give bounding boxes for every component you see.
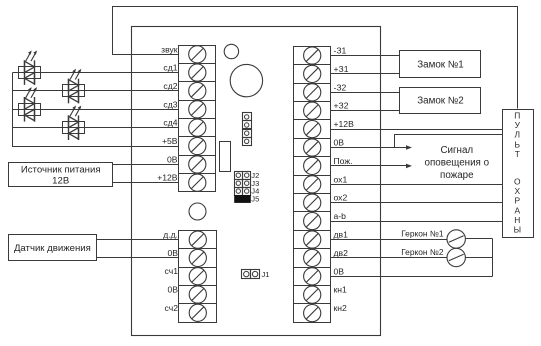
svg-text:сд4: сд4 bbox=[163, 118, 177, 128]
svg-text:0В: 0В bbox=[167, 285, 178, 295]
terminal block X1 (left upper strip) bbox=[179, 46, 216, 192]
svg-text:Х: Х bbox=[515, 186, 521, 196]
svg-text:Источник питания: Источник питания bbox=[21, 165, 101, 176]
wire ох2 to ПУЛЬТ ОХРАНЫ bbox=[331, 202, 503, 204]
svg-text:ох1: ох1 bbox=[334, 174, 348, 184]
wire 0В to motion sensor bbox=[97, 257, 179, 259]
LED HL2 (bicolor, two anti-parallel diodes with emission arrows) bbox=[63, 69, 85, 104]
terminal X3:Пож. bbox=[294, 157, 331, 176]
power supply box: Источник питания 12В bbox=[9, 163, 113, 187]
svg-text:-З2: -З2 bbox=[334, 82, 347, 92]
svg-text:0В: 0В bbox=[334, 266, 345, 276]
svg-text:сд1: сд1 bbox=[163, 63, 177, 73]
terminal X3:0В bbox=[294, 139, 331, 157]
terminal X3:кн1 bbox=[294, 286, 331, 304]
terminal X3:+З2 bbox=[294, 102, 331, 120]
lock box: Замок №1 bbox=[400, 51, 481, 78]
svg-text:сд3: сд3 bbox=[163, 99, 177, 109]
svg-text:Замок №1: Замок №1 bbox=[417, 59, 464, 70]
LED HL1 (bicolor, two anti-parallel diodes with emission arrows) bbox=[19, 50, 41, 85]
svg-text:У: У bbox=[515, 120, 521, 130]
svg-text:А: А bbox=[515, 205, 521, 215]
svg-text:J5: J5 bbox=[251, 195, 259, 204]
LED HL4 (bicolor, two anti-parallel diodes with emission arrows) bbox=[63, 106, 85, 141]
svg-text:Геркон №1: Геркон №1 bbox=[401, 228, 444, 238]
wire -З1 to Замок №1 bbox=[331, 55, 400, 57]
wire Геркон №1 output bbox=[466, 238, 493, 240]
reed switch Геркон №2 bbox=[401, 247, 465, 267]
terminal X3:дв1 bbox=[294, 231, 331, 249]
svg-text:ох2: ох2 bbox=[334, 193, 348, 203]
terminal X3:дв2 bbox=[294, 249, 331, 268]
svg-text:12В: 12В bbox=[52, 176, 69, 187]
terminal X2:сч1 bbox=[179, 268, 217, 286]
svg-text:+З2: +З2 bbox=[334, 101, 349, 111]
svg-text:Н: Н bbox=[514, 215, 520, 225]
terminal block X3 (right strip) bbox=[294, 47, 331, 323]
terminal X3:-З2 bbox=[294, 84, 331, 102]
wire сд2 (through LED HL2) bbox=[13, 90, 179, 92]
terminal X3:+З1 bbox=[294, 65, 331, 84]
svg-text:0В: 0В bbox=[167, 154, 178, 164]
terminal X3:ох2 bbox=[294, 194, 331, 212]
svg-text:сч1: сч1 bbox=[165, 266, 179, 276]
svg-text:сч2: сч2 bbox=[165, 303, 179, 313]
svg-text:J1: J1 bbox=[262, 270, 270, 279]
terminal X3:кн2 bbox=[294, 304, 331, 323]
wire сд1 (through LED HL1) bbox=[13, 72, 179, 74]
terminal X3:+12В bbox=[294, 120, 331, 139]
wire +З1 to Замок №1 bbox=[331, 73, 400, 75]
jumper J2 bbox=[235, 171, 260, 180]
wire +5В common rail for LEDs bbox=[13, 73, 179, 147]
svg-text:кн2: кн2 bbox=[334, 303, 348, 313]
terminal X3:a-b bbox=[294, 212, 331, 231]
svg-text:кн1: кн1 bbox=[334, 285, 348, 295]
wire дв1 to Геркон №1 bbox=[331, 239, 447, 241]
wire +З2 to Замок №2 bbox=[331, 110, 400, 112]
svg-text:пожаре: пожаре bbox=[440, 170, 474, 181]
svg-text:Ь: Ь bbox=[515, 139, 521, 149]
circle (mounting hole) between left strips bbox=[189, 203, 206, 220]
wire д.д. from motion sensor bbox=[97, 239, 179, 241]
terminal X1:сд3 bbox=[179, 101, 216, 119]
terminal X1:сд2 bbox=[179, 82, 216, 101]
wire звук: from X1 звук up over the board to ПУЛЬТ ОХРАНЫ box top bbox=[113, 7, 518, 109]
svg-text:Р: Р bbox=[515, 196, 521, 206]
small circle (mounting hole) top bbox=[224, 44, 238, 58]
terminal block X2 (left lower strip) bbox=[179, 231, 217, 323]
wire Пож. with arrow to fire notification signal bbox=[331, 164, 413, 169]
svg-text:+5В: +5В bbox=[162, 136, 178, 146]
LED HL3 (bicolor, two anti-parallel diodes with emission arrows) bbox=[19, 87, 41, 122]
terminal X1:+12В bbox=[179, 174, 216, 192]
svg-text:0В: 0В bbox=[167, 248, 178, 258]
wire сд3 (through LED HL3) bbox=[13, 109, 179, 111]
svg-text:О: О bbox=[514, 177, 521, 187]
terminal X2:0В bbox=[179, 249, 217, 268]
svg-text:оповещения о: оповещения о bbox=[425, 158, 490, 169]
svg-text:-З1: -З1 bbox=[334, 46, 347, 56]
jumper J1 bbox=[242, 270, 270, 280]
big circle (buzzer/speaker) bbox=[230, 64, 262, 96]
svg-text:a-b: a-b bbox=[334, 211, 347, 221]
terminal X3:-З1 bbox=[294, 47, 331, 65]
4-pin header (vertical connector) bbox=[243, 113, 252, 146]
wire 0В from power supply bbox=[113, 164, 179, 166]
wire +12В to ПУЛЬТ ОХРАНЫ bbox=[331, 129, 503, 131]
terminal X1:сд4 bbox=[179, 119, 216, 137]
terminal X3:ох1 bbox=[294, 176, 331, 194]
text: Сигнал оповещения о пожаре bbox=[425, 145, 490, 181]
svg-text:звук: звук bbox=[161, 44, 178, 54]
jumper J4 bbox=[235, 187, 260, 196]
security console box: ПУЛЬТ ОХРАНЫ (vertical text) bbox=[503, 110, 534, 238]
reed switch Геркон №1 bbox=[401, 228, 465, 248]
wire +12В from power supply bbox=[113, 182, 179, 184]
svg-text:Геркон №2: Геркон №2 bbox=[401, 247, 444, 257]
svg-text:сд2: сд2 bbox=[163, 81, 177, 91]
svg-text:дв1: дв1 bbox=[334, 230, 349, 240]
svg-text:д.д.: д.д. bbox=[163, 230, 178, 240]
wire 0В to ПУЛЬТ ОХРАНЫ (with branch) bbox=[331, 135, 503, 148]
svg-text:Замок №2: Замок №2 bbox=[417, 96, 464, 107]
wire reed switch common return bbox=[492, 239, 494, 277]
terminal X1:+5В bbox=[179, 137, 216, 156]
svg-text:Пож.: Пож. bbox=[334, 156, 353, 166]
svg-text:Т: Т bbox=[515, 149, 520, 159]
svg-text:Ы: Ы bbox=[514, 225, 521, 235]
terminal X2:д.д. bbox=[179, 231, 217, 249]
terminal X2:0В bbox=[179, 286, 217, 304]
terminal X1:звук bbox=[179, 46, 216, 64]
wire -З2 to Замок №2 bbox=[331, 92, 400, 94]
svg-text:дв2: дв2 bbox=[334, 248, 349, 258]
svg-text:+З1: +З1 bbox=[334, 64, 349, 74]
wire 0В return from reed switches bbox=[331, 276, 493, 278]
jumper J3 bbox=[235, 179, 260, 188]
terminal X3:0В bbox=[294, 268, 331, 286]
wire сд4 (through LED HL4) bbox=[13, 127, 179, 129]
wire дв2 to Геркон №2 bbox=[331, 257, 447, 259]
svg-text:Датчик движения: Датчик движения bbox=[14, 243, 91, 254]
wire ох1 to ПУЛЬТ ОХРАНЫ bbox=[331, 184, 503, 186]
vertical rectangle component (relay/resistor) bbox=[220, 142, 231, 172]
svg-text:Сигнал: Сигнал bbox=[440, 145, 473, 156]
lock box: Замок №2 bbox=[400, 88, 481, 114]
motion sensor box: Датчик движения bbox=[9, 235, 97, 261]
terminal X2:сч2 bbox=[179, 304, 217, 323]
svg-text:Л: Л bbox=[515, 130, 521, 140]
svg-text:0В: 0В bbox=[334, 138, 345, 148]
jumper J5 (closed, solid) bbox=[234, 195, 259, 204]
svg-text:+12В: +12В bbox=[334, 119, 355, 129]
svg-text:+12В: +12В bbox=[157, 173, 178, 183]
wire a-b to ПУЛЬТ ОХРАНЫ bbox=[331, 221, 503, 223]
terminal X1:сд1 bbox=[179, 64, 216, 82]
terminal X1:0В bbox=[179, 156, 216, 174]
arrow 0В to fire notification signal bbox=[395, 145, 413, 150]
wire Геркон №2 output bbox=[466, 257, 493, 259]
svg-text:П: П bbox=[514, 111, 520, 121]
board outline (main PCB rectangle) bbox=[132, 27, 381, 336]
